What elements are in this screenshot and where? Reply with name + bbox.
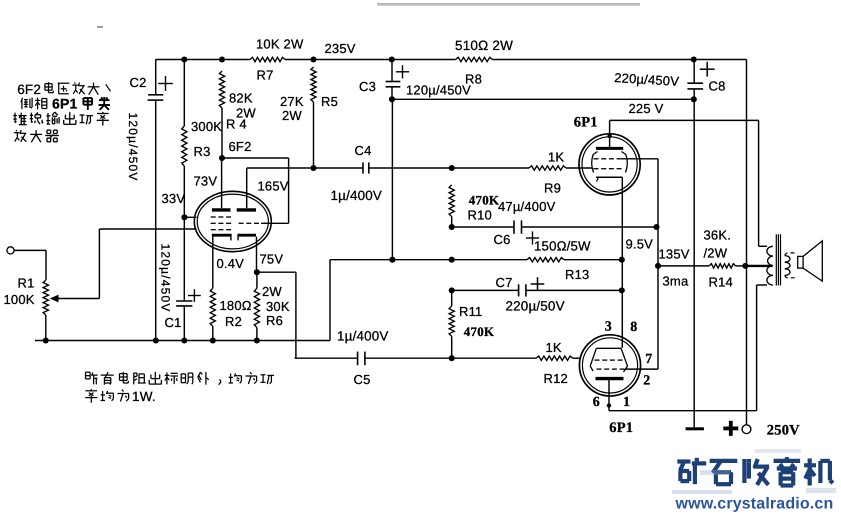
junction dots on bus (43, 337, 260, 343)
label R2 (225, 314, 242, 329)
tube U1 6F2 triode-pentode envelope (194, 191, 271, 251)
transformer center tap thick wire (745, 265, 772, 267)
resistor R3 300K (182, 126, 187, 166)
label R7 (257, 68, 274, 83)
wire 225V rail (389, 96, 697, 102)
svg-text:C4: C4 (355, 143, 372, 158)
label C7 (496, 275, 513, 290)
label C5 value 1u/400V (337, 329, 389, 344)
svg-text:10K 2W: 10K 2W (256, 36, 304, 51)
node dot R10 top (449, 165, 455, 171)
resistor R11 470K (449, 290, 455, 361)
label 135V (659, 247, 690, 262)
6P1a grid dashes row1 (594, 158, 622, 160)
wire secondary leads dashed (785, 253, 798, 278)
label R8 value 510ohm 2W (455, 38, 513, 53)
speaker LS1 (798, 241, 823, 281)
label 6P1 lower (609, 420, 633, 436)
svg-text:R 4: R 4 (226, 117, 247, 132)
svg-text:C1: C1 (165, 315, 182, 330)
wire C3 negative down to bias bus (389, 99, 395, 262)
wire C8 ground line down (693, 99, 695, 427)
svg-text:75V: 75V (260, 252, 284, 267)
title line4 amplifier (14, 130, 59, 142)
capacitor C4 1u/400V (363, 162, 369, 173)
terminal input jack circle (7, 247, 14, 254)
label 6F2 (229, 139, 252, 154)
wire 6P1a g3 to right (622, 158, 658, 160)
svg-text:0.4V: 0.4V (217, 256, 245, 271)
6F2 pentode cathode bar (212, 235, 232, 240)
ground symbol (686, 427, 704, 430)
label 0.4V (217, 256, 245, 271)
svg-text:1K: 1K (546, 340, 562, 355)
label C3 (359, 79, 376, 94)
label R11 (459, 304, 482, 319)
svg-text:C8: C8 (709, 79, 726, 94)
label C3 value 120u/450V (406, 83, 471, 98)
terminal +250V circle (742, 425, 751, 434)
resistor R5 27K 2W branch (311, 67, 316, 168)
svg-text:C5: C5 (354, 372, 371, 387)
wire 6P1b anode lead down (607, 380, 611, 411)
svg-text:135V: 135V (659, 247, 690, 262)
wire screen bus vertical (657, 159, 659, 369)
label 6P1 upper (574, 114, 598, 130)
watermark jpeg ghost marks (672, 449, 836, 494)
label R5 (321, 94, 338, 109)
svg-text:3ma: 3ma (663, 274, 689, 289)
svg-text:8: 8 (630, 320, 637, 335)
6P1a anode bar (596, 147, 623, 150)
potentiometer R1 100K (43, 280, 48, 340)
label 220u/50V (506, 299, 565, 314)
label 165V (258, 179, 289, 194)
tube V2 6P1 lower envelope (579, 335, 640, 396)
label 9.5V (626, 237, 654, 252)
label R4 (226, 117, 247, 132)
resistor R13 150ohm/5W (527, 258, 564, 262)
wire input grid from volume pot (99, 228, 196, 230)
svg-text:R12: R12 (544, 371, 568, 386)
pin label 6 (593, 395, 600, 410)
tube V1 6P1 upper envelope (579, 134, 640, 195)
label C1 (165, 315, 182, 330)
node 225 V label (629, 101, 664, 116)
svg-text:1: 1 (623, 395, 630, 410)
node dot R4 to grid link (219, 155, 225, 161)
wire R14 line (655, 263, 749, 269)
label C1 value 120u/450V rotated (159, 244, 173, 313)
pin label 3 (605, 320, 612, 335)
6P1a cathode line (596, 177, 622, 181)
label C6 (494, 232, 511, 247)
node dot screen tap on R3 line (181, 214, 187, 220)
label R1 (18, 276, 35, 291)
wire screen to tube (184, 216, 196, 218)
label C8 value 220u/450V (614, 70, 680, 89)
label C2 (130, 75, 147, 90)
wire triode cathode to C5 node (257, 272, 296, 358)
resistor R9 1K (529, 166, 566, 170)
label 47u/400V (498, 199, 556, 214)
node 33V label (162, 191, 186, 206)
wire 6F2 pentode cathode lead (212, 237, 214, 289)
svg-text:R10: R10 (468, 208, 492, 223)
6F2 pentode anode bar (212, 208, 231, 211)
R1 wiper arrow (50, 229, 100, 302)
resistor R10 470K (449, 185, 454, 227)
label 27K (280, 94, 304, 109)
capacitor C6 47u/400V (514, 220, 539, 244)
wire grid line triode anode to C4 to R9 (247, 167, 593, 169)
capacitor C2 120u/450V (148, 60, 173, 341)
label 150ohm/5W (534, 239, 591, 254)
svg-text:33V: 33V (162, 191, 186, 206)
svg-text:www.crystalradio.cn: www.crystalradio.cn (675, 496, 834, 513)
svg-text:6: 6 (593, 395, 600, 410)
svg-text:36K.: 36K. (704, 228, 732, 243)
title text 6F2 voltage amp line1 (17, 82, 110, 97)
svg-text:1µ/400V: 1µ/400V (331, 188, 383, 203)
svg-text:R9: R9 (544, 181, 561, 196)
label 2W of R5 (282, 108, 302, 123)
wire/resistor branch R3 300K with C1 (183, 60, 185, 341)
svg-text:6P1: 6P1 (574, 114, 598, 130)
svg-text:510Ω 2W: 510Ω 2W (455, 38, 513, 53)
wire C5 line (295, 357, 582, 359)
resistor R6 30K 2W (254, 272, 259, 340)
wire direct-coupling link to triode grid (222, 158, 289, 223)
label 30K (266, 299, 290, 314)
svg-text:7: 7 (645, 352, 652, 367)
capacitor C7 220u/50V (519, 277, 545, 296)
svg-text:27K: 27K (280, 94, 304, 109)
resistor R7 10K 2W (250, 57, 285, 61)
label R10 (468, 208, 492, 223)
transformer core lines (776, 234, 780, 285)
label 2W of R4 (236, 106, 256, 121)
label R8 (465, 72, 482, 87)
svg-text:2W: 2W (282, 108, 302, 123)
wire B+ rail right side down to 250V terminal (746, 60, 748, 425)
svg-text:220µ/50V: 220µ/50V (506, 299, 565, 314)
label R12 (544, 371, 568, 386)
label C4 (355, 143, 372, 158)
svg-text:120µ/450V: 120µ/450V (159, 244, 173, 313)
wire 6F2 pentode anode lead to R4 (221, 158, 223, 208)
resistor R12 1K (536, 356, 573, 360)
title line2 6P1 class A (21, 96, 110, 112)
label R6 (266, 313, 283, 328)
label 73V (194, 174, 218, 189)
svg-text:6P1: 6P1 (52, 96, 78, 112)
stray scan artifact top bar (377, 3, 640, 6)
6F2 pentode grid dashes g3 (211, 216, 231, 218)
label 250V (767, 422, 800, 438)
wire 6P1b g3 to screen bus (626, 368, 659, 370)
junction dots on top rail (181, 56, 697, 62)
svg-text:120µ/450V: 120µ/450V (406, 83, 471, 98)
svg-text:2W: 2W (262, 284, 282, 299)
resistor R8 510ohm 2W (456, 57, 493, 61)
svg-text:3: 3 (605, 320, 612, 335)
label R13 (565, 267, 589, 282)
svg-text:R1: R1 (18, 276, 35, 291)
wire plate1 to output transformer top (610, 120, 767, 246)
label 100K (4, 292, 35, 307)
node dot R10 bottom C6 line (449, 224, 455, 230)
label 1K of R9 (548, 150, 564, 165)
watermark logo kuangshi shouyinji (677, 457, 833, 485)
6F2 triode anode bar (237, 208, 256, 211)
svg-text:1K: 1K (548, 150, 564, 165)
svg-text:R14: R14 (709, 275, 733, 290)
svg-text:180Ω: 180Ω (220, 298, 252, 313)
svg-text:1W.: 1W. (132, 389, 156, 404)
label C2 value 120u/450V rotated (126, 113, 140, 182)
label 180ohm (220, 298, 252, 313)
capacitor C1 120u/450V (176, 289, 201, 306)
svg-text:R11: R11 (459, 304, 482, 319)
stray mark near top left (97, 26, 103, 28)
svg-text:82K: 82K (229, 91, 253, 106)
label 470K of R11 (464, 324, 495, 339)
svg-text:R5: R5 (321, 94, 338, 109)
6F2 grids dashes row2 pentode+triode (211, 222, 266, 224)
label R14 (709, 275, 733, 290)
label C4 value 1u/400V (331, 188, 383, 203)
label 36K. (704, 228, 732, 243)
label 75V (260, 252, 284, 267)
label 3ma (663, 274, 689, 289)
label 82K (229, 91, 253, 106)
wire input to R1 (14, 250, 46, 280)
svg-text:6P1: 6P1 (609, 420, 633, 436)
6P1b cathode top line (596, 347, 621, 349)
svg-text:30K: 30K (266, 299, 290, 314)
wire C6 line (452, 224, 660, 230)
svg-text:2: 2 (643, 374, 650, 389)
svg-text:150Ω/5W: 150Ω/5W (534, 239, 591, 254)
watermark url www.crystalradio.cn (675, 496, 834, 513)
wire C7 line (449, 287, 625, 293)
label 300K (191, 119, 222, 134)
note text line2 (85, 389, 156, 404)
pin label 2 (643, 374, 650, 389)
label /2W (704, 246, 728, 261)
label C8 (709, 79, 726, 94)
svg-text:9.5V: 9.5V (626, 237, 654, 252)
capacitor C8 220u/450V (687, 60, 714, 100)
title line3 push pull output power (13, 112, 109, 126)
svg-text:235V: 235V (325, 41, 356, 56)
6F2 pentode control grid dashes (211, 229, 231, 231)
label R3 (194, 144, 211, 159)
svg-text:470K: 470K (464, 324, 495, 339)
label C5 (354, 372, 371, 387)
svg-text:C6: C6 (494, 232, 511, 247)
svg-text:/2W: /2W (704, 246, 728, 261)
6P1a beam plates (592, 152, 628, 173)
svg-text:300K: 300K (191, 119, 222, 134)
svg-text:C7: C7 (496, 275, 513, 290)
wire top B+ rail 235V (156, 59, 747, 61)
6P1b grid dashes row2 (597, 368, 625, 370)
svg-text:47µ/400V: 47µ/400V (498, 199, 556, 214)
svg-text:6F2: 6F2 (229, 139, 252, 154)
pin label 7 (645, 352, 652, 367)
resistor R2 180ohm (210, 288, 215, 340)
node 235V label (325, 41, 356, 56)
wire 6P1a cathode lead down (621, 177, 623, 348)
wire 6F2 triode anode lead (246, 168, 248, 208)
svg-text:R6: R6 (266, 313, 283, 328)
6P1b anode bar (596, 377, 624, 380)
svg-text:225 V: 225 V (629, 101, 664, 116)
svg-text:470K: 470K (469, 192, 500, 207)
wire plate2 to transformer bottom (609, 285, 767, 411)
svg-text:R13: R13 (565, 267, 589, 282)
svg-text:1µ/400V: 1µ/400V (337, 329, 389, 344)
transformer T1 primary winding (767, 246, 773, 285)
svg-text:R3: R3 (194, 144, 211, 159)
wire R13 bias line (330, 257, 625, 263)
wire 6F2 triode cathode lead (254, 237, 260, 276)
resistor R4 82K 2W branch (219, 71, 224, 158)
svg-text:C2: C2 (130, 75, 147, 90)
svg-text:6F2: 6F2 (17, 82, 41, 97)
svg-text:120µ/450V: 120µ/450V (126, 113, 140, 182)
label 470K of R10 (469, 192, 500, 207)
wire ground bias bus (35, 260, 330, 341)
label 1K of R12 (546, 340, 562, 355)
transformer T1 secondary winding (785, 256, 790, 276)
plus sign of 250V supply (723, 421, 738, 436)
node dot R5 bottom (310, 165, 316, 171)
svg-text:250V: 250V (767, 422, 800, 438)
6F2 triode cathode bar (237, 235, 256, 240)
pin label 8 (630, 320, 637, 335)
svg-text:R2: R2 (225, 314, 242, 329)
svg-text:100K: 100K (4, 292, 35, 307)
6P1b side slants (590, 348, 627, 372)
svg-text:C3: C3 (359, 79, 376, 94)
resistor R14 36K/2W (709, 264, 735, 268)
wire 6P1a plate lead up (607, 120, 611, 147)
6P1a grid dashes row2 (594, 168, 622, 170)
label 2W of R6 (262, 284, 282, 299)
label R7 value 10K 2W (256, 36, 304, 51)
svg-text:R7: R7 (257, 68, 274, 83)
capacitor C5 1u/400V (358, 352, 365, 366)
svg-text:73V: 73V (194, 174, 218, 189)
label R9 (544, 181, 561, 196)
6P1b grid dashes row1 (595, 359, 623, 361)
capacitor C3 120u/450V (386, 60, 410, 100)
pin label 1 (623, 395, 630, 410)
note text all resistors 1W line1 (86, 372, 275, 385)
svg-text:165V: 165V (258, 179, 289, 194)
